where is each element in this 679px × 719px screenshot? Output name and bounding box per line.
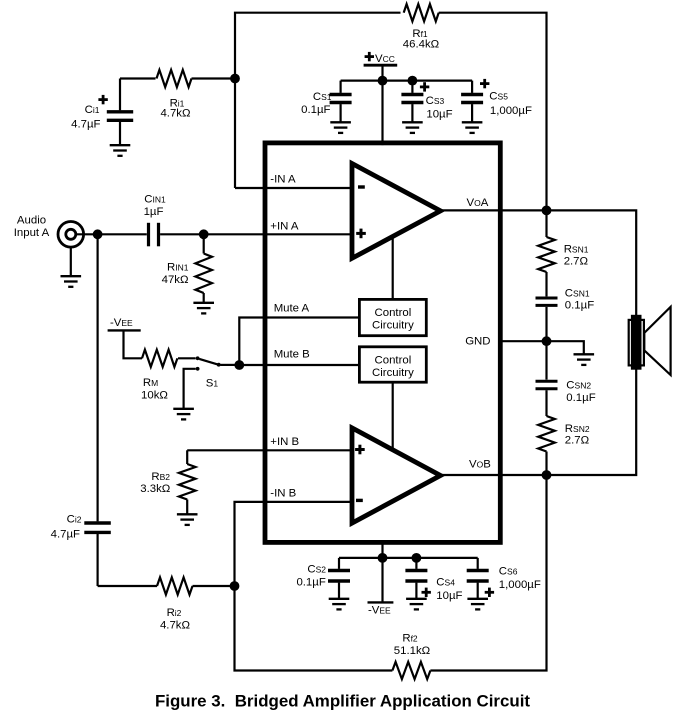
svg-text:4.7µF: 4.7µF bbox=[51, 528, 80, 540]
capacitor CS4 bbox=[405, 558, 462, 602]
svg-text:+IN B: +IN B bbox=[270, 436, 299, 448]
svg-text:Rf2: Rf2 bbox=[402, 633, 418, 645]
ground bbox=[467, 599, 488, 610]
svg-text:CSN1: CSN1 bbox=[565, 287, 590, 299]
svg-text:4.7kΩ: 4.7kΩ bbox=[160, 619, 191, 631]
svg-text:Ci1: Ci1 bbox=[85, 104, 100, 116]
resistor RB2 bbox=[140, 450, 195, 514]
svg-text:S1: S1 bbox=[206, 377, 219, 389]
capacitor CSN2 bbox=[536, 341, 596, 416]
wire audio junction down to Ci2 bbox=[96, 234, 98, 521]
power -VEE (supply) bbox=[368, 558, 394, 617]
wire +IN A bbox=[160, 233, 351, 235]
resistor Rf1 bbox=[403, 4, 440, 50]
ground bbox=[177, 514, 198, 525]
svg-text:-VEE: -VEE bbox=[368, 604, 391, 616]
svg-text:0.1µF: 0.1µF bbox=[565, 300, 594, 312]
wire GND pin bbox=[501, 340, 547, 342]
resistor Ri1 bbox=[157, 70, 192, 120]
svg-text:4.7µF: 4.7µF bbox=[71, 118, 100, 130]
capacitor Ci1 bbox=[71, 79, 133, 145]
capacitor CS1 bbox=[301, 81, 351, 122]
ground bbox=[110, 145, 131, 156]
wire GND to ground symbol bbox=[547, 341, 584, 354]
svg-text:-VEE: -VEE bbox=[110, 317, 133, 329]
svg-text:CS5: CS5 bbox=[489, 91, 508, 103]
wire top feedback right segment bbox=[439, 13, 547, 211]
capacitor CS3 bbox=[401, 81, 452, 122]
wire op-amp A to control circuitry bbox=[392, 236, 394, 299]
op-amp U1B bbox=[352, 428, 441, 523]
svg-text:10µF: 10µF bbox=[426, 109, 452, 121]
resistor RIN1 bbox=[162, 234, 212, 302]
capacitor Ci2 bbox=[51, 514, 111, 587]
svg-text:2.7Ω: 2.7Ω bbox=[564, 256, 589, 268]
svg-text:Figure 3. Bridged Amplifier A: Figure 3. Bridged Amplifier Application … bbox=[155, 692, 530, 711]
svg-text:4.7kΩ: 4.7kΩ bbox=[160, 108, 191, 120]
power +VCC bbox=[364, 52, 398, 145]
node Ri1/feedback junction bbox=[230, 74, 240, 84]
wire -IN A bbox=[235, 187, 352, 189]
capacitor CS2 bbox=[296, 558, 350, 598]
ground bbox=[330, 122, 351, 133]
svg-text:46.4kΩ: 46.4kΩ bbox=[403, 38, 440, 50]
svg-text:VOB: VOB bbox=[469, 458, 491, 470]
resistor RSN2 bbox=[538, 416, 590, 475]
wire connector to ground bbox=[70, 247, 72, 276]
svg-text:CS3: CS3 bbox=[426, 95, 445, 107]
wire VoA to speaker bbox=[547, 210, 637, 315]
svg-text:CS4: CS4 bbox=[436, 577, 455, 589]
wire bottom feedback left segment bbox=[235, 586, 393, 671]
svg-text:Audio: Audio bbox=[17, 215, 46, 227]
svg-text:CIN1: CIN1 bbox=[144, 194, 166, 206]
power -VEE (mute pull-down) bbox=[108, 317, 142, 358]
capacitor CS6 bbox=[467, 558, 541, 598]
svg-text:1,000µF: 1,000µF bbox=[499, 579, 541, 591]
svg-text:RSN1: RSN1 bbox=[564, 244, 589, 256]
svg-text:Control: Control bbox=[375, 354, 412, 366]
wire connector to CIN1 bbox=[76, 233, 147, 235]
wire +IN B bbox=[187, 449, 351, 451]
node CS4 junction bbox=[412, 553, 422, 563]
node -IN B junction bbox=[230, 581, 240, 591]
ground bbox=[406, 599, 427, 610]
node VEE rail junction bbox=[378, 553, 388, 563]
node RIN1 junction bbox=[199, 229, 209, 239]
svg-text:Circuitry: Circuitry bbox=[372, 367, 414, 379]
svg-text:3.3kΩ: 3.3kΩ bbox=[140, 483, 171, 495]
connector Audio Input A bbox=[14, 215, 84, 248]
svg-text:Ci2: Ci2 bbox=[67, 514, 82, 526]
resistor RM bbox=[141, 350, 177, 402]
svg-text:CSN2: CSN2 bbox=[566, 379, 591, 391]
wire switch lower contact to ground bbox=[184, 369, 196, 409]
node VoB bbox=[542, 470, 552, 480]
svg-text:Mute A: Mute A bbox=[274, 303, 310, 315]
wire RM to switch bbox=[178, 357, 196, 359]
svg-text:10kΩ: 10kΩ bbox=[141, 389, 168, 401]
wire Mute B bbox=[239, 364, 359, 366]
wire Ci2 to Ri2 bbox=[98, 585, 157, 587]
resistor RSN1 bbox=[538, 210, 589, 296]
wire bottom feedback right segment bbox=[430, 475, 546, 671]
svg-text:+IN A: +IN A bbox=[270, 221, 299, 233]
svg-text:RM: RM bbox=[143, 377, 158, 389]
svg-text:0.1µF: 0.1µF bbox=[566, 392, 595, 404]
control circuitry block 1 bbox=[359, 299, 426, 335]
svg-text:1,000µF: 1,000µF bbox=[490, 105, 532, 117]
node CS3 junction bbox=[408, 76, 418, 86]
op-amp U1A bbox=[352, 164, 441, 259]
ground bbox=[402, 122, 423, 133]
node VCC rail junction bbox=[378, 76, 388, 86]
ground bbox=[329, 599, 350, 610]
svg-text:51.1kΩ: 51.1kΩ bbox=[394, 645, 431, 657]
svg-text:2.7Ω: 2.7Ω bbox=[565, 435, 590, 447]
capacitor CIN1 bbox=[144, 194, 166, 247]
svg-text:Ri2: Ri2 bbox=[167, 607, 182, 619]
wire Ri1 to junction bbox=[192, 77, 236, 79]
svg-text:Mute B: Mute B bbox=[274, 349, 310, 361]
svg-text:Control: Control bbox=[375, 307, 412, 319]
svg-text:-IN B: -IN B bbox=[270, 487, 296, 499]
ground bbox=[173, 409, 194, 420]
node audio input junction bbox=[93, 229, 103, 239]
wire top feedback left/top segment bbox=[235, 13, 401, 188]
capacitor CS5 bbox=[461, 79, 532, 122]
svg-text:VCC: VCC bbox=[375, 53, 395, 65]
node VoA bbox=[542, 206, 552, 216]
svg-text:0.1µF: 0.1µF bbox=[301, 104, 330, 116]
node mute junction bbox=[234, 360, 244, 370]
svg-text:Input A: Input A bbox=[14, 227, 50, 239]
svg-text:RB2: RB2 bbox=[151, 471, 170, 483]
svg-text:CS6: CS6 bbox=[499, 566, 518, 578]
wire Ci1 to Ri1 bbox=[120, 77, 156, 79]
svg-text:1µF: 1µF bbox=[144, 206, 164, 218]
IC boundary box bbox=[265, 143, 500, 543]
svg-text:Circuitry: Circuitry bbox=[372, 320, 414, 332]
wire VCC bypass rail bbox=[341, 79, 473, 81]
capacitor CSN1 bbox=[536, 287, 595, 341]
wire IC to VEE rail bbox=[381, 542, 383, 558]
svg-text:VOA: VOA bbox=[467, 197, 489, 209]
ground bbox=[574, 354, 595, 365]
svg-text:-IN A: -IN A bbox=[270, 174, 296, 186]
resistor Rf2 bbox=[392, 633, 430, 680]
svg-text:10µF: 10µF bbox=[436, 590, 462, 602]
wire VoA output bbox=[440, 209, 547, 211]
wire VoB to speaker bbox=[547, 369, 637, 475]
wire -IN B bbox=[235, 502, 352, 586]
svg-text:47kΩ: 47kΩ bbox=[162, 274, 189, 286]
ground bbox=[193, 303, 214, 314]
svg-text:CS2: CS2 bbox=[307, 564, 326, 576]
svg-text:GND: GND bbox=[465, 336, 490, 348]
wire control circuitry to op-amp B bbox=[392, 382, 394, 449]
ground bbox=[462, 122, 483, 133]
resistor Ri2 bbox=[157, 577, 193, 631]
speaker bbox=[629, 307, 671, 375]
ground bbox=[61, 276, 82, 287]
wire VoB output bbox=[440, 474, 547, 476]
svg-text:RIN1: RIN1 bbox=[167, 262, 189, 274]
wire Mute A bbox=[239, 318, 359, 366]
node GND junction bbox=[542, 336, 552, 346]
switch S1 bbox=[196, 356, 235, 389]
svg-text:0.1µF: 0.1µF bbox=[296, 576, 325, 588]
control circuitry block 2 bbox=[359, 347, 426, 382]
svg-text:RSN2: RSN2 bbox=[565, 423, 590, 435]
wire Ri2 to junction bbox=[193, 585, 235, 587]
svg-text:CS1: CS1 bbox=[313, 91, 332, 103]
wire VEE bypass rail bbox=[339, 557, 478, 559]
